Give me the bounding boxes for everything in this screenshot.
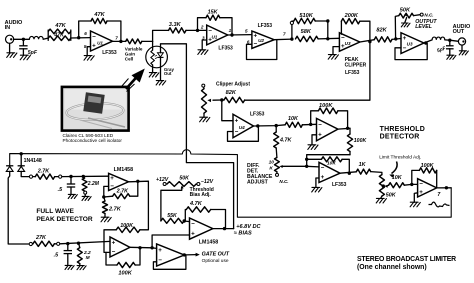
ground cell left (149, 73, 159, 77)
wire 3.3K to U1a pin2 (186, 29, 207, 31)
inductor output coil (432, 37, 445, 40)
pin 5 label U2 (245, 28, 248, 33)
label LF353 U1b (102, 50, 117, 56)
node upper 2.2M (82, 175, 85, 178)
LED inside cell (155, 53, 164, 59)
node upper cap (69, 175, 72, 178)
wire into cell top (152, 41, 154, 50)
op-amp U3 output buffer LF353 (401, 33, 424, 54)
node lower cap (66, 242, 69, 245)
wiper threshold bias (161, 185, 184, 221)
label 2.7K vertical FW1 (108, 207, 122, 213)
photoresistor inside cell (151, 50, 155, 65)
svg-text:OUT: OUT (453, 29, 465, 35)
label .5 upper (58, 187, 63, 193)
wire gate output arrow (186, 253, 200, 257)
label 10K TD2 (327, 161, 336, 167)
resistor 2.7K upper (35, 174, 54, 179)
wire bias minus stub (184, 220, 189, 223)
svg-text:6: 6 (84, 31, 87, 36)
wire up to 510K with terminal (290, 21, 294, 39)
svg-text:FULL WAVE: FULL WAVE (36, 208, 74, 215)
wire U2 output (274, 38, 292, 41)
label Gray Out (164, 67, 175, 76)
photo inset Clairex isolator (62, 87, 129, 131)
op-amp U3 peak clipper LF353 (339, 33, 359, 51)
wire pot right to NC (414, 13, 424, 16)
label 50K limit (386, 192, 397, 198)
svg-text:−: − (110, 183, 114, 190)
wire upper detector line (62, 175, 109, 177)
resistor 27K lower (33, 241, 55, 246)
resistor 47K lower of pair (48, 36, 71, 41)
resistor 2.7K vertical FW1 (103, 197, 108, 217)
wire U1a feedback loop (198, 18, 233, 35)
label 47K above pair (54, 23, 66, 29)
diode D1 1N4148 (6, 166, 13, 172)
svg-text:STEREO BROADCAST LIMITER: STEREO BROADCAST LIMITER (357, 256, 456, 263)
label audio out (453, 24, 471, 35)
wiper output level to ground (401, 13, 410, 27)
title STEREO BROADCAST LIMITER (357, 256, 456, 271)
node FW2 output branch (150, 246, 153, 249)
node clipper adjust (220, 98, 223, 101)
svg-text:7: 7 (115, 36, 118, 41)
label .5 lower (54, 252, 59, 258)
svg-text:82K: 82K (376, 27, 387, 33)
wire diode2 stub (20, 154, 22, 166)
svg-text:2.7K: 2.7K (116, 189, 129, 195)
svg-text:LM1458: LM1458 (199, 240, 218, 246)
resistor 100K TD1 feedback (318, 108, 338, 114)
svg-text:47K: 47K (93, 12, 105, 18)
clipper pot wiper arrow (207, 99, 221, 102)
ground upper cap (68, 194, 77, 198)
svg-text:LF353: LF353 (332, 182, 347, 188)
capacitor .5 upper (67, 177, 75, 195)
svg-text:+: + (321, 174, 325, 181)
potentiometer 50K limit threshold (379, 175, 384, 197)
svg-text:LEVEL: LEVEL (415, 24, 432, 30)
terminal circle upper detector 2 (55, 175, 62, 178)
terminal circle upper detector in (29, 175, 32, 178)
resistor 100K vertical TD (347, 128, 352, 154)
wire U1a pin3 to ground (202, 40, 207, 50)
svg-text:2.7K: 2.7K (37, 168, 50, 174)
label 82K clipper (226, 90, 237, 96)
wire node up to 3.3K (153, 30, 169, 41)
wiper balance (279, 165, 306, 168)
svg-text:2.2: 2.2 (83, 250, 91, 256)
wire U1b output (113, 40, 126, 42)
resistor 10K TD2 feedback (321, 157, 342, 162)
ground at J1 (7, 43, 17, 57)
svg-text:+: + (110, 175, 114, 182)
label 510K (299, 13, 313, 19)
label Threshold Bias Adj (190, 187, 214, 198)
potentiometer clipper adjust (202, 89, 207, 114)
node TD1 feedback (309, 123, 312, 126)
potentiometer 10K balance (275, 158, 280, 172)
svg-text:U1: U1 (211, 34, 217, 39)
wiper limit threshold (384, 185, 388, 188)
wire U1a out to U2 pin5 (228, 34, 252, 36)
svg-text:(One channel shown): (One channel shown) (357, 264, 427, 271)
node input cap (22, 38, 25, 41)
label LF353 U3a (345, 70, 360, 76)
resistor 2.2M upper (82, 176, 87, 196)
svg-text:7: 7 (283, 31, 286, 36)
svg-text:Limit Threshold Adj.: Limit Threshold Adj. (379, 154, 421, 160)
terminal circle lower detector in (29, 242, 32, 245)
wire U1b pin5 to ground (87, 47, 90, 56)
node U3b output (424, 41, 427, 44)
wire U3b feedback loop (395, 43, 427, 60)
wire 200K left leg (340, 21, 342, 34)
ground upper 2.2M (82, 196, 91, 200)
ground clipper pot (200, 117, 210, 122)
op-amp U2 LF353 follower (252, 31, 274, 48)
wire U4 output (254, 125, 286, 126)
svg-text:LF353: LF353 (345, 70, 360, 76)
svg-text:+6.8V DC: +6.8V DC (236, 224, 261, 230)
svg-text:100K: 100K (120, 223, 134, 229)
label 2.7K upper (37, 168, 50, 174)
resistor 82K clipper adjust (224, 97, 245, 102)
node gate output (183, 253, 186, 256)
node FW1 fb (102, 195, 105, 198)
node TD2 loop top (305, 158, 308, 161)
label 58K (301, 29, 312, 35)
bias pot right terminal (197, 179, 214, 186)
wire TD1 feedback loop (311, 111, 348, 129)
connector J1 audio in (6, 35, 14, 43)
wire cell LED cathode to ground (160, 58, 162, 81)
svg-text:LF353: LF353 (218, 45, 233, 51)
resistor 510K (294, 18, 315, 23)
ground TD3 plus (410, 202, 420, 207)
svg-text:15K: 15K (208, 9, 219, 15)
wire U3a out down to clipper adjust (245, 42, 370, 101)
ground at output cap (447, 55, 456, 59)
wire feedback loop U1b (79, 21, 121, 41)
wire 100K down to TD2 input (307, 155, 350, 167)
svg-text:+: + (235, 118, 239, 125)
label 50K output level (400, 7, 411, 13)
resistor 2.2M lower (77, 243, 82, 265)
op-amp U1 pin1/2/3 LF353 (207, 25, 228, 45)
wire FW2 feedback loop (106, 248, 140, 265)
resistor 58K (296, 36, 319, 41)
wire coil to 47K pair (43, 38, 48, 39)
ground lower cap (65, 265, 74, 269)
audio in label (5, 20, 23, 31)
wire D1 bottom down left rail (8, 171, 29, 244)
svg-text:−: − (112, 249, 116, 256)
wire balance to TD2 minus (307, 165, 319, 168)
svg-text:10: 10 (269, 160, 275, 166)
svg-text:+: + (158, 247, 162, 254)
svg-text:−: − (321, 165, 325, 172)
label pin 7 TD3 (437, 192, 441, 198)
node TD2 output (348, 172, 351, 175)
resistor 55K (161, 218, 184, 223)
label LM1458 FW1 (114, 167, 133, 173)
resistor 100K TD3 feedback (419, 168, 436, 173)
curved arrow limit threshold (389, 162, 397, 178)
op-amp U4 LF353 follower (233, 114, 254, 138)
caption Clairex (63, 133, 123, 143)
node TD2 minus (305, 165, 308, 168)
label 3.3K (169, 22, 182, 28)
wire U2 feedback loop (247, 40, 277, 60)
label DIFF DET BALANCE ADJUST (247, 163, 273, 186)
node feedback U1b (77, 36, 80, 39)
svg-text:Cell: Cell (125, 57, 133, 62)
connector J2 audio out (458, 38, 465, 45)
pin 1 label U1a (229, 28, 232, 33)
svg-text:−: − (158, 257, 162, 264)
ground TD2 plus (312, 187, 322, 192)
resistor 47K feedback U1b (91, 18, 107, 23)
wire FW2 output (130, 247, 157, 248)
svg-text:N.C.: N.C. (279, 179, 288, 184)
label LF353 TD2 (332, 182, 347, 188)
label 1K (359, 162, 367, 168)
label 47K inner pair (53, 33, 65, 39)
svg-text:U4: U4 (239, 125, 245, 130)
wire U3b out to coil (424, 40, 432, 43)
pin 7 label U2 (283, 31, 286, 36)
node 4.7K tap (275, 124, 278, 127)
svg-text:Optional use: Optional use (202, 258, 229, 264)
resistor variable gain cell series (126, 39, 142, 44)
node U4 output (256, 124, 259, 127)
svg-text:PEAK DETECTOR: PEAK DETECTOR (36, 216, 93, 223)
wire FW2 out up to bias plus (152, 235, 189, 248)
svg-text:200K: 200K (344, 13, 359, 19)
label GATE OUT (202, 252, 230, 258)
svg-text:5: 5 (245, 28, 248, 33)
wire circle to 2.7K (33, 176, 36, 178)
svg-text:1K: 1K (359, 162, 367, 168)
svg-text:−: − (253, 41, 257, 48)
svg-text:100K: 100K (421, 163, 435, 169)
node diode 2 top (20, 152, 23, 155)
resistor 4.7K bias feedback (186, 207, 210, 212)
svg-text:Photoconductive cell isolator: Photoconductive cell isolator (63, 138, 123, 143)
svg-text:ADJUST: ADJUST (247, 180, 269, 186)
svg-text:100K: 100K (118, 271, 132, 277)
svg-text:THRESHOLD: THRESHOLD (380, 126, 425, 133)
svg-text:+12V: +12V (156, 177, 169, 183)
node 58K left (290, 37, 293, 40)
svg-text:100K: 100K (319, 103, 333, 109)
resistor 200K feedback U3 (341, 19, 359, 24)
pin 5 label U1 (84, 44, 87, 49)
svg-text:5pF: 5pF (28, 50, 38, 56)
svg-text:U2: U2 (258, 38, 264, 43)
node lower 2.2M (77, 242, 80, 245)
node TD3 minus (410, 183, 413, 186)
wire D2 bottom to detector line (21, 171, 29, 176)
svg-text:55K: 55K (167, 213, 178, 219)
wire TD2 output (340, 172, 356, 173)
svg-text:+: + (318, 132, 322, 139)
label 100K vertical (354, 138, 368, 144)
svg-text:4.7K: 4.7K (189, 201, 203, 207)
svg-text:LF353: LF353 (258, 23, 273, 29)
svg-text:1: 1 (229, 28, 232, 33)
bias pot left terminal (156, 177, 169, 186)
svg-text:U3: U3 (345, 41, 351, 46)
wire 10K to TD1 minus (302, 123, 316, 126)
label 10K TD1 (288, 116, 299, 122)
wire 510K right (315, 20, 328, 22)
label 4.7K vertical (279, 138, 292, 144)
ground limit pot (376, 198, 386, 203)
svg-text:10K: 10K (327, 161, 336, 167)
svg-text:CLIPPER: CLIPPER (345, 62, 367, 68)
svg-text:+: + (112, 239, 116, 246)
wire TD1 output (338, 127, 350, 130)
svg-text:510K: 510K (299, 13, 313, 19)
svg-text:U1: U1 (97, 41, 103, 46)
node 58K right (326, 37, 329, 40)
resistor 47K upper of pair (48, 29, 71, 34)
pin 3 label U1a (202, 35, 205, 40)
label 50K bias (179, 175, 190, 181)
ground cell right (156, 81, 166, 85)
capacitor 5pF input (19, 39, 27, 55)
label NC output level (424, 12, 433, 17)
svg-text:Clipper Adjust: Clipper Adjust (216, 82, 250, 88)
wire LED anode drive line (161, 44, 234, 229)
svg-text:N.C.: N.C. (424, 12, 433, 17)
svg-text:+: + (191, 230, 195, 237)
node FW2 fb join (138, 246, 141, 249)
svg-text:DETECTOR: DETECTOR (380, 134, 420, 141)
label THRESHOLD DETECTOR (380, 126, 425, 141)
label 10K limit (392, 175, 403, 181)
label +6.8V DC (236, 224, 261, 230)
svg-text:Bias Adj.: Bias Adj. (190, 192, 212, 198)
svg-text:GATE OUT: GATE OUT (202, 252, 230, 258)
op-amp TD1 threshold detector (317, 118, 338, 140)
node output cap (448, 39, 451, 42)
svg-text:50K: 50K (179, 175, 190, 181)
label Optional use (202, 258, 229, 264)
resistor 10K to TD1 (285, 122, 302, 127)
wire circle to 27K (31, 243, 34, 245)
node TD1 output (346, 127, 349, 130)
node TD3 output (445, 186, 448, 189)
wire 82K to U3b (392, 38, 401, 41)
label OUTPUT LEVEL (415, 19, 437, 30)
label 100K TD3 (421, 163, 435, 169)
wire FW1 feedback (104, 181, 138, 197)
svg-text:4.7K: 4.7K (279, 138, 292, 144)
svg-text:1N4148: 1N4148 (24, 158, 42, 164)
label 100K mid (120, 223, 134, 229)
svg-text:10K: 10K (392, 175, 403, 181)
label 4.7K bias (189, 201, 203, 207)
wire J1 to input network (14, 38, 30, 40)
resistor 82K output (374, 37, 392, 42)
op-amp LM1458 bias (190, 218, 213, 239)
label 15K (208, 9, 219, 15)
svg-text:47K: 47K (54, 23, 66, 29)
node output level tap (394, 37, 397, 40)
wire TD3 output (437, 187, 452, 189)
resistor 4.7K vertical (274, 126, 279, 158)
svg-text:−12V: −12V (201, 179, 214, 185)
svg-text:3.3K: 3.3K (169, 22, 182, 28)
wire U4 feedback loop (228, 126, 259, 141)
op-amp LM1458 FW1 (109, 173, 129, 190)
resistor 100K mid (116, 227, 140, 232)
terminal circle lower 2 (54, 242, 59, 245)
svg-text:2: 2 (200, 24, 204, 29)
node bias output (223, 227, 226, 230)
wire 58K to U3 minus (318, 37, 339, 40)
wire 510K to 58K junction (327, 21, 329, 39)
waveform symbol clipped output (429, 202, 450, 207)
node 510K right (326, 19, 329, 22)
label 100K bottom (118, 271, 132, 277)
svg-text:2.7K: 2.7K (108, 207, 122, 213)
resistor 1K (356, 169, 370, 174)
label LF353 U4 (250, 112, 265, 118)
label Clipper Adjust (216, 82, 250, 88)
wire 100K mid to FW2 minus (104, 230, 116, 253)
label 200K (344, 13, 359, 19)
label Limit Threshold Adj (379, 154, 421, 160)
wire lower detector line (60, 241, 110, 243)
potentiometer 50K output level (399, 13, 414, 18)
pin 7 label U1 (115, 36, 118, 41)
wire bias feedback loop (184, 210, 225, 229)
svg-text:LF353: LF353 (102, 50, 117, 56)
ground TD1 plus (308, 145, 318, 150)
wire 82K to pot wiper node (222, 99, 224, 101)
svg-text:100K: 100K (354, 138, 368, 144)
label 5pF output (436, 45, 447, 54)
svg-text:−: − (318, 121, 322, 128)
label FULL WAVE PEAK DETECTOR (36, 208, 93, 223)
wire bias output (213, 228, 234, 230)
node U1a output (230, 33, 233, 36)
svg-text:10K: 10K (288, 116, 299, 122)
svg-text:50K: 50K (400, 7, 411, 13)
label 2.7K feedback FW1 (116, 189, 129, 195)
wire gate feedback loop (153, 255, 186, 269)
parallel resistor pair 47K bars (48, 30, 71, 40)
svg-text:50K: 50K (386, 192, 397, 198)
clipper pot top NC (202, 84, 205, 89)
op-amp TD2 LF353 (319, 162, 340, 182)
wire 47K pair to U1 pin6 (71, 37, 91, 39)
wire hold line from diodes (wire A) (10, 150, 452, 217)
svg-text:−: − (419, 181, 423, 188)
capacitor .5 lower (64, 244, 72, 266)
wire FW1 minus loop (104, 186, 109, 197)
balance pot NC (276, 172, 289, 184)
wire cell left stem to ground (152, 65, 154, 73)
diode D2 1N4148 (18, 166, 25, 172)
wire TD2 plus to ground (316, 178, 319, 187)
pin 6 label U1 (84, 31, 87, 36)
